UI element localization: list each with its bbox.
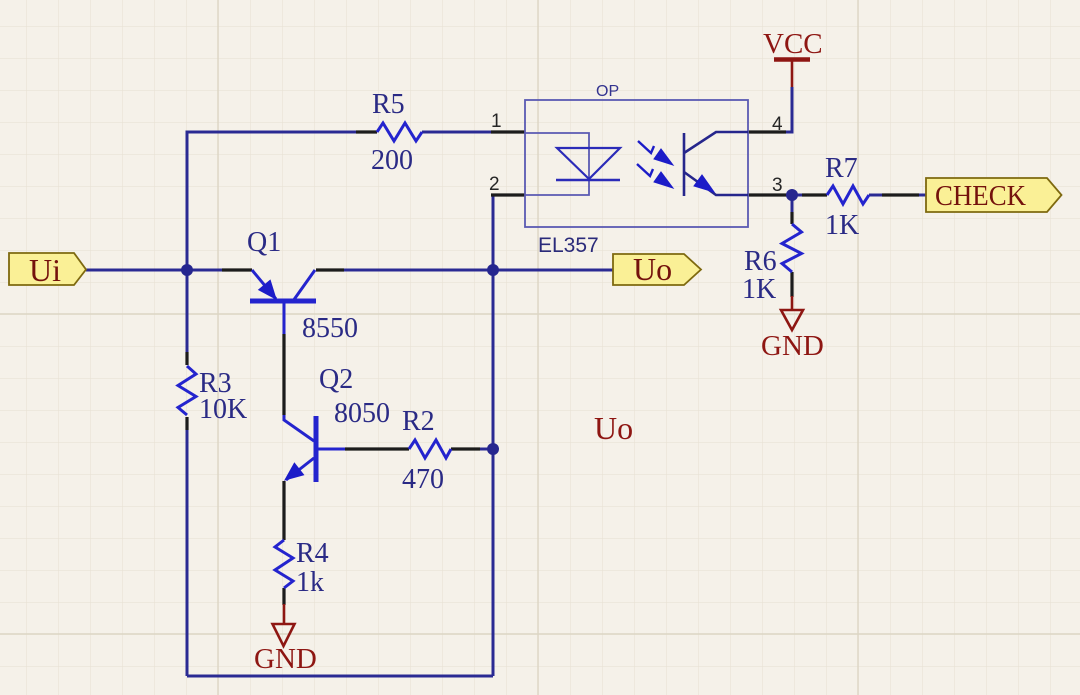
wire: R6 lower pin stub bbox=[790, 272, 793, 297]
VCC bar bbox=[774, 57, 810, 62]
resistor R6 bbox=[782, 224, 802, 272]
wire: R3 lower pin stub bbox=[185, 417, 188, 430]
junction dots bbox=[181, 189, 798, 455]
Q1 collector line bbox=[293, 270, 315, 301]
resistor R3 bbox=[178, 366, 196, 415]
phototransistor emitter arrow bbox=[694, 175, 714, 192]
transistor Q1 bbox=[250, 270, 316, 334]
resistor R5 bbox=[377, 123, 422, 141]
svg-text:200: 200 bbox=[371, 145, 413, 176]
resistor R7 bbox=[827, 186, 869, 204]
phototransistor emitter bbox=[684, 172, 748, 195]
resistor R4 bbox=[275, 540, 293, 588]
svg-text:Uo: Uo bbox=[594, 410, 633, 446]
node: R2 junction bbox=[487, 443, 499, 455]
pin 1 stub of U1 bbox=[491, 130, 525, 133]
wire: Q1 emitter pin stub bbox=[222, 268, 252, 271]
transistor Q2 bbox=[284, 415, 345, 482]
Q1 emitter arrow bbox=[259, 280, 276, 299]
svg-text:VCC: VCC bbox=[763, 28, 823, 60]
wire: R2 right pin stub bbox=[451, 447, 480, 450]
svg-text:Q1: Q1 bbox=[247, 227, 281, 258]
svg-text:470: 470 bbox=[402, 464, 444, 495]
GND triangle (left) bbox=[273, 624, 295, 646]
port Uo bbox=[613, 251, 701, 287]
wire: R7 to CHECK port bbox=[869, 194, 882, 197]
wire: Q2 emitter pin stub bbox=[282, 481, 285, 540]
GND triangle (right) bbox=[781, 310, 803, 330]
power VCC bbox=[774, 60, 810, 88]
svg-text:R6: R6 bbox=[744, 246, 777, 277]
wire: R6 upper pin stub bbox=[790, 212, 793, 224]
svg-text:Q2: Q2 bbox=[319, 364, 353, 395]
GND stub (left) bbox=[283, 604, 286, 624]
light arrow 1 bbox=[638, 141, 673, 165]
wire: R6 top bbox=[791, 195, 794, 212]
Q2 emitter line bbox=[286, 458, 314, 480]
ground GND (right) bbox=[781, 296, 803, 330]
wire: Q1 collector to Uo port bbox=[344, 269, 613, 272]
svg-text:3: 3 bbox=[772, 175, 783, 196]
svg-text:10K: 10K bbox=[199, 394, 247, 425]
resistor R2 bbox=[409, 440, 451, 458]
svg-text:1K: 1K bbox=[742, 274, 776, 305]
svg-text:4: 4 bbox=[772, 114, 783, 135]
wire: R5 left pin stub bbox=[356, 130, 377, 133]
svg-text:Ui: Ui bbox=[29, 252, 61, 288]
svg-text:CHECK: CHECK bbox=[935, 180, 1026, 212]
wire: R3 upper pin stub bbox=[185, 352, 188, 365]
svg-text:R5: R5 bbox=[372, 89, 405, 120]
svg-text:1: 1 bbox=[491, 111, 502, 132]
light arrow 2 bbox=[637, 164, 673, 188]
svg-text:8550: 8550 bbox=[302, 313, 358, 344]
port Ui bbox=[9, 252, 86, 288]
svg-text:1k: 1k bbox=[296, 567, 324, 598]
Q2 base stub bbox=[316, 448, 345, 451]
svg-text:EL357: EL357 bbox=[538, 234, 599, 257]
wire: R5 right to pin 1 bbox=[422, 131, 491, 134]
LED cathode bar bbox=[556, 179, 620, 181]
svg-text:GND: GND bbox=[254, 643, 317, 675]
svg-text:1K: 1K bbox=[825, 210, 859, 241]
svg-text:Uo: Uo bbox=[633, 251, 672, 287]
Q2 collector line bbox=[284, 415, 314, 441]
phototransistor base bar bbox=[683, 133, 686, 196]
wire: R2 right to right vertical bbox=[480, 448, 493, 451]
port CHECK bbox=[926, 178, 1062, 212]
ground GND (left) bbox=[273, 604, 295, 646]
Q2 base bar bbox=[314, 416, 319, 482]
pin 4 stub of U1 bbox=[748, 130, 786, 133]
GND stub (right) bbox=[791, 296, 794, 311]
pin 3 stub of U1 bbox=[748, 193, 790, 196]
optocoupler U1 EL357 bbox=[525, 100, 748, 227]
wire: Q1 collector pin stub bbox=[316, 268, 344, 271]
VCC stub bbox=[791, 60, 794, 88]
wire: right vertical (pin2 to bottom rail) bbox=[492, 195, 495, 676]
wire: pin4 to VCC bbox=[786, 87, 792, 132]
Q2 emitter arrow bbox=[285, 463, 304, 480]
U1 body box bbox=[525, 100, 748, 227]
wire: pin3 node segment bbox=[783, 194, 802, 197]
pin stubs (black) bbox=[187, 132, 919, 605]
Q1 base stub bbox=[283, 301, 286, 334]
Q1 emitter line bbox=[252, 270, 276, 299]
LED triangle bbox=[557, 148, 620, 179]
svg-text:2: 2 bbox=[489, 174, 500, 195]
wire: Q2 base pin stub bbox=[345, 447, 409, 450]
U1 LED sub-box bbox=[525, 133, 589, 195]
svg-text:8050: 8050 bbox=[334, 398, 390, 429]
svg-text:R7: R7 bbox=[825, 153, 858, 184]
wire: R7 right pin stub bbox=[882, 193, 919, 196]
wire: bottom rail bbox=[187, 675, 493, 678]
svg-text:OP: OP bbox=[596, 83, 619, 100]
wire: Ui port to Q1 emitter bbox=[86, 269, 222, 272]
svg-text:R4: R4 bbox=[296, 538, 329, 569]
wire: left vertical lower to bottom rail bbox=[186, 430, 189, 676]
wire: Q1 base pin stub bbox=[282, 334, 285, 415]
Q1 base bar bbox=[250, 299, 316, 304]
phototransistor collector bbox=[684, 132, 748, 153]
node: Ui junction bbox=[181, 264, 193, 276]
svg-text:GND: GND bbox=[761, 330, 824, 362]
wire: left vertical upper (node Ui) bbox=[187, 132, 356, 352]
wire bbox=[86, 87, 927, 676]
wire: R7 left pin stub bbox=[802, 193, 827, 196]
pin 2 stub of U1 bbox=[491, 193, 525, 196]
node: pin3 junction bbox=[786, 189, 798, 201]
node: Uo junction bbox=[487, 264, 499, 276]
wire: R4 lower pin stub bbox=[282, 588, 285, 605]
svg-text:R2: R2 bbox=[402, 406, 435, 437]
